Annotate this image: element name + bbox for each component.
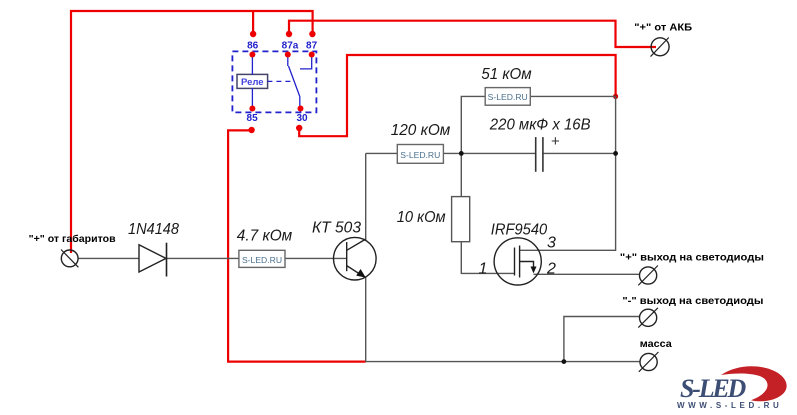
wire red from relay 30 up to 51k top rail <box>299 55 615 136</box>
svg-text:51 кОм: 51 кОм <box>481 66 531 83</box>
svg-text:Реле: Реле <box>241 77 264 88</box>
svg-text:2: 2 <box>546 261 556 278</box>
svg-text:87: 87 <box>306 40 318 51</box>
logo S-LED <box>677 366 787 410</box>
svg-text:IRF9540: IRF9540 <box>491 222 547 239</box>
svg-text:3: 3 <box>547 235 556 252</box>
svg-text:S-LED.RU: S-LED.RU <box>488 92 528 102</box>
node junction dot A <box>459 151 464 156</box>
svg-text:4.7 кОм: 4.7 кОм <box>237 228 292 245</box>
diode D1 1N4148 <box>128 221 179 277</box>
relay K1 <box>232 40 317 123</box>
resistor R1 51 кОм <box>481 66 531 105</box>
svg-text:КТ 503: КТ 503 <box>312 220 361 237</box>
terminal "-" выход на светодиоды <box>622 296 763 328</box>
resistor R4 10 кОм <box>397 197 470 242</box>
wire 4.7k to base <box>285 257 347 259</box>
wire input to diode <box>78 257 139 259</box>
svg-text:WWW.S-LED.RU: WWW.S-LED.RU <box>677 401 782 410</box>
wire collector drop <box>365 153 367 240</box>
relay pin 86 <box>249 52 255 58</box>
node red dot end 87a <box>286 31 292 37</box>
svg-text:1: 1 <box>479 261 488 278</box>
wire ground rail to масса <box>366 361 640 363</box>
svg-text:86: 86 <box>247 40 259 51</box>
svg-text:S-LED.RU: S-LED.RU <box>400 150 440 160</box>
node red junction at 51k right <box>613 94 618 99</box>
capacitor C1 220 мкФ x 16В <box>489 117 591 172</box>
svg-text:S-LED.RU: S-LED.RU <box>242 255 282 265</box>
wire red from relay 85 down to ground rail <box>228 130 366 361</box>
terminal "+" от габаритов <box>29 233 116 267</box>
relay pin 87a <box>285 52 291 58</box>
svg-text:"+" выход на светодиоды: "+" выход на светодиоды <box>620 253 764 264</box>
svg-text:10 кОм: 10 кОм <box>397 209 446 226</box>
transistor Q1 КТ 503 <box>334 237 377 280</box>
relay pin 30 <box>298 106 304 112</box>
resistor R2 120 кОм <box>391 122 451 163</box>
wire red from relay 87a to battery terminal <box>289 21 656 47</box>
node red dot end 87 <box>309 31 315 37</box>
terminal "+" от АКБ <box>634 23 692 57</box>
wire mosfet pin2 to "+" output <box>534 273 640 275</box>
svg-text:масса: масса <box>640 339 672 350</box>
svg-text:"-" выход на светодиоды: "-" выход на светодиоды <box>622 296 763 307</box>
wire "-" output branch <box>564 317 640 362</box>
svg-text:+: + <box>551 133 560 150</box>
svg-text:120 кОм: 120 кОм <box>391 122 451 139</box>
wire emitter to ground rail <box>365 277 367 362</box>
wire red drop to relay pin 86 <box>252 11 254 34</box>
terminal масса <box>639 339 672 372</box>
transistor Q2 IRF9540 (p-MOSFET) <box>494 238 541 285</box>
wire 10k branch to mosfet gate <box>461 153 514 273</box>
wire 51k branch <box>461 96 615 153</box>
relay pin 85 <box>249 106 255 112</box>
node red dot end 86 <box>250 31 256 37</box>
wire mid horizontal 120k/cap net <box>366 152 616 154</box>
wire right rail down to mosfet pin3 <box>520 96 616 250</box>
svg-text:1N4148: 1N4148 <box>128 221 179 238</box>
node junction dot C <box>562 359 567 364</box>
wire diode to 4.7k <box>167 257 239 259</box>
node red dot below 30 <box>296 125 302 131</box>
node red dot below 85 <box>248 127 254 133</box>
wire red top bus from parking-light input to relay 86/87 <box>71 11 313 253</box>
svg-text:85: 85 <box>247 113 259 124</box>
svg-text:30: 30 <box>296 113 308 124</box>
terminal "+" выход на светодиоды <box>620 253 764 286</box>
relay pin 87 <box>309 52 315 58</box>
svg-text:220 мкФ x 16В: 220 мкФ x 16В <box>489 117 591 134</box>
resistor R3 4.7 кОм <box>237 228 292 268</box>
svg-text:"+" от АКБ: "+" от АКБ <box>634 23 692 34</box>
svg-text:"+" от габаритов: "+" от габаритов <box>29 233 116 245</box>
node junction dot B <box>613 151 618 156</box>
svg-text:S-LED: S-LED <box>680 374 747 403</box>
svg-text:87a: 87a <box>282 40 299 51</box>
